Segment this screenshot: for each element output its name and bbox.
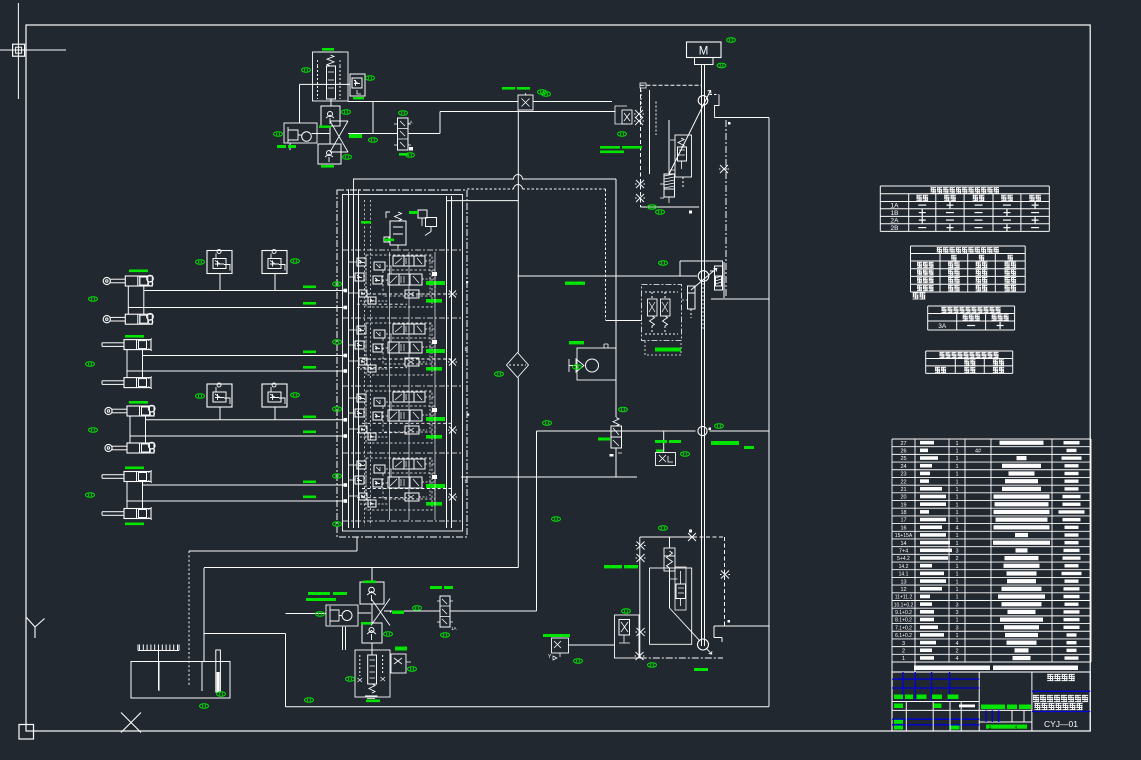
svg-text:25: 25 [900,456,906,462]
throttle valve TV1 top [518,93,533,110]
manifold section 4 pilot valves [355,461,385,507]
suction pipe in tank [216,650,221,692]
wire crossing X top-left group [330,121,348,152]
wire manifold drain to tank (dotted) [188,551,190,687]
svg-text:1: 1 [955,472,958,478]
oil tank T [131,662,230,699]
svg-text:1: 1 [955,510,958,516]
manifold top-right valve cluster [418,210,437,236]
svg-text:2A: 2A [891,217,900,224]
wire pump2 links [606,283,703,355]
check valve CV5 [362,623,382,643]
svg-text:14.2: 14.2 [899,564,909,570]
table 4: balance valve chart [926,351,1013,373]
pump2 control valves [645,292,678,334]
svg-text:1: 1 [955,449,958,455]
svg-text:11+11.2: 11+11.2 [895,595,913,601]
pilot check valve block [262,250,287,291]
pump group 3 frame [640,537,725,658]
svg-text:4: 4 [955,525,958,531]
manifold interior rails [390,252,436,520]
wire long bottom return [286,706,770,708]
svg-text:1B: 1B [891,210,899,217]
wire manifold return y200 [446,200,518,202]
manifold interior dotted verticals [365,200,371,526]
title block revision grid (blue) [892,672,979,725]
pump2 control box (chain) [642,285,682,341]
X break mark [121,713,141,733]
svg-text:1: 1 [955,456,958,462]
title block white dividers [892,702,979,732]
svg-text:3: 3 [955,549,958,555]
parts list table grid [892,439,1091,662]
svg-text:1: 1 [955,618,958,624]
svg-text:15+15A: 15+15A [895,533,913,539]
svg-text:3: 3 [955,625,958,631]
hydraulic cylinder 1A [103,275,153,286]
air breather comb on tank [138,645,179,691]
manifold section 2 main spool valve [388,324,425,366]
svg-text:1: 1 [955,587,958,593]
manifold section 3 pilot valves [355,394,385,440]
manifold section 2 pilot valves [355,326,385,372]
manifold section 1 main spool valve [388,256,425,298]
svg-text:2: 2 [902,648,905,654]
svg-text:1: 1 [955,502,958,508]
svg-text:14: 14 [900,541,906,547]
pilot check valve block [262,383,287,420]
wire pump2 suction y276 [518,275,698,277]
pump P3 with motor [326,605,358,626]
svg-text:1: 1 [955,464,958,470]
title block frame [892,672,1090,731]
hydraulic cylinder 1B [103,313,153,324]
stroke cylinder SC1 [715,266,723,290]
valve V4 side [391,654,411,673]
svg-text:6.1+0.2: 6.1+0.2 [895,633,912,639]
check valve CV4 top [360,582,384,604]
parts list footer bars [892,662,1078,672]
pump1 control group frame [641,85,702,207]
directional valve DV2 [437,596,457,631]
valve V5 cluster [615,615,640,658]
svg-text:4#: 4# [975,449,982,455]
wire pump1 group internals [656,102,729,214]
wire manifold drain header [189,537,357,551]
filter F1 [507,353,529,378]
svg-text:18: 18 [900,510,906,516]
wire cylinder group 2 bracket [127,350,143,378]
wire pump2 case drain y299 [711,298,769,300]
svg-text:1: 1 [955,479,958,485]
svg-text:1: 1 [902,656,905,662]
valve V2 (unloading) [350,74,365,96]
svg-text:1: 1 [955,564,958,570]
wire top-left group connections [290,84,440,150]
manifold section 1 labels [426,272,457,303]
svg-text:24: 24 [900,464,906,470]
title block drawing title [1032,691,1090,729]
svg-text:22: 22 [900,479,906,485]
table 3: pilot solenoid chart [928,306,1015,330]
manifold section 3 links [348,391,435,437]
valve V7 small [656,431,676,466]
wire return into tank [204,568,286,707]
manifold pilot relief valve [384,212,406,251]
check valve CV1 [321,106,340,126]
svg-text:7+4: 7+4 [899,549,908,555]
manifold section 4 frame [366,458,435,510]
wire manifold feed y179 [353,175,616,418]
svg-text:b: b [465,347,468,353]
green id labels [86,38,755,709]
pilot check valve block [207,250,232,291]
wire check line x616 [615,448,617,477]
svg-text:12: 12 [900,587,906,593]
hydraulic cylinder 2A [102,339,152,351]
svg-text:7.1+0.2: 7.1+0.2 [895,625,912,631]
svg-text:1: 1 [955,518,958,524]
manifold section 4 labels [426,475,457,506]
wire pump2 top loop [680,261,724,298]
svg-text:1A: 1A [891,202,900,209]
wire cylinder group 1 rails [128,289,451,310]
svg-text:2: 2 [955,648,958,654]
wire pump output header y101 [365,101,612,103]
pilot check valve block [207,383,232,420]
svg-text:3A: 3A [938,323,947,330]
svg-text:8.1+0.2: 8.1+0.2 [895,618,912,624]
manifold section 3 frame [366,391,435,443]
svg-text:10.1+0.2: 10.1+0.2 [894,602,914,608]
counterbalance valve CB1 [610,418,623,457]
wire cylinder group 3 bracket [130,416,146,443]
svg-text:1: 1 [955,541,958,547]
manifold section 1 pilot valves [355,258,385,304]
svg-text:23: 23 [900,472,906,478]
drive shaft double line [702,65,705,647]
svg-text:5+4.2: 5+4.2 [897,556,910,562]
wire right trunk x767 [768,118,770,707]
parts list entries [894,441,1085,663]
manifold section 3 main spool valve [388,392,425,434]
svg-text:b: b [465,479,468,485]
table 2: handle position chart [911,246,1026,299]
junction node J1 [698,426,711,435]
manifold section 2 labels [426,340,457,371]
svg-text:27: 27 [900,441,906,447]
relief valve RV2 group [355,650,390,701]
cooler pump with fan [569,344,616,380]
check valve CV2 [318,144,341,164]
wire pump1 load-sense hook [710,95,731,299]
svg-text:1: 1 [955,579,958,585]
svg-text:4: 4 [955,656,958,662]
manifold section separators [343,250,462,521]
pump P2 (variable) [691,269,717,291]
wire return branch y111 [440,112,616,134]
svg-text:1: 1 [955,441,958,447]
svg-text:19: 19 [900,502,906,508]
wire bottom group connections [372,568,537,655]
svg-text:13: 13 [900,579,906,585]
wire manifold return y477 [461,476,637,478]
svg-text:M: M [699,46,709,58]
manifold section 1 frame [366,255,435,307]
valve cluster LS [615,83,646,125]
wire cylinder group 4 bracket [127,482,143,509]
svg-text:1: 1 [955,572,958,578]
electric motor M [687,42,722,65]
hydraulic cylinder 3B [105,442,155,453]
svg-text:CYJ—01: CYJ—01 [1044,719,1078,729]
svg-text:1: 1 [955,487,958,493]
sequence valve SV1 [635,174,675,203]
svg-text:1A: 1A [451,626,457,631]
svg-text:2B: 2B [891,225,899,232]
hydraulic cylinder 4A [102,471,152,483]
manifold inlet risers [349,179,359,196]
wire pilot dashed y189 [467,185,606,321]
wire junction header y431 [537,430,770,432]
svg-text:3: 3 [955,602,958,608]
svg-text:3: 3 [955,610,958,616]
wire cylinder group 4 rails [127,483,451,503]
wire pump suction double [343,627,346,650]
svg-text:20: 20 [900,495,906,501]
wire pump3 right hook to trunk [714,626,769,642]
Y axis symbol [27,618,45,639]
main pump P1 (variable) [669,91,711,175]
wire bottom-right group links [569,530,731,661]
wire cylinder group 1 bracket [128,286,144,314]
svg-text:16: 16 [900,525,906,531]
wire crossing X bottom group [286,599,391,626]
svg-text:3: 3 [902,641,905,647]
relief valve RV1 [670,135,692,177]
control piston CP1 [688,286,696,318]
hydraulic cylinder 3A [105,405,155,416]
svg-text:9.1+0.2: 9.1+0.2 [895,610,912,616]
manifold section 4 main spool valve [388,459,425,501]
svg-text:1: 1 [955,533,958,539]
title block university name [1047,674,1075,680]
svg-text:2: 2 [955,556,958,562]
svg-text:1: 1 [955,595,958,601]
wire return trunk x518 [204,110,518,568]
pump group 3 inner frame [650,568,692,644]
manifold section 4 links [348,458,435,504]
table 1: solenoid action chart [880,186,1049,232]
svg-text:21: 21 [900,487,906,493]
wire riser x536 [536,431,538,611]
svg-text:14.1: 14.1 [899,572,909,578]
directional valve DV1 [394,118,413,151]
pressure valve V1 with spring [313,52,349,101]
svg-text:1: 1 [955,495,958,501]
wire cylinder group 2 rails [127,354,451,373]
pump P4 (variable) [670,608,712,654]
manifold section 1 links [348,255,435,301]
svg-text:26: 26 [900,449,906,455]
hydraulic cylinder 4B [102,508,152,520]
pilot valve V6 [548,638,569,660]
svg-text:1: 1 [955,633,958,639]
manifold section 2 frame [366,323,435,375]
svg-text:17: 17 [900,518,906,524]
UCS crosshair marker [0,3,66,99]
relief valve RV3 [664,548,686,610]
title block green signature cells [894,695,975,730]
manifold section 2 links [348,323,435,369]
manifold block outline (chain) [337,190,467,537]
svg-text:4: 4 [955,641,958,647]
corner plot square [19,725,34,740]
hydraulic cylinder 2B [102,377,152,389]
svg-text:1A: 1A [407,120,413,125]
manifold port marks [465,281,470,485]
manifold supply rails [349,196,452,528]
wire right trunk top y117 [726,117,769,119]
wire cylinder group 3 rails [130,418,451,438]
manifold section 3 labels [426,408,457,439]
title block middle cells [979,705,1032,730]
pump P0 and motor [284,123,317,143]
